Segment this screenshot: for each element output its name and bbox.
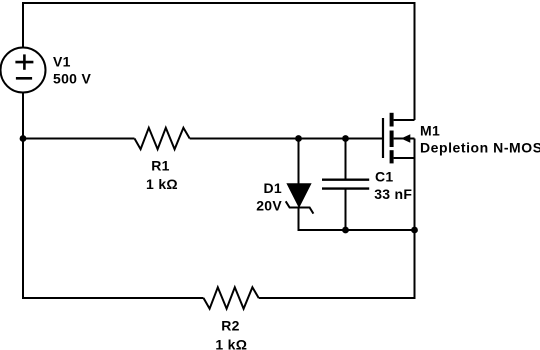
voltage source V1: [1, 48, 46, 93]
resistor R2: [204, 287, 259, 308]
wire right vertical upper (drain to top): [414, 2, 416, 120]
svg-text:1 kΩ: 1 kΩ: [146, 176, 178, 192]
svg-text:20V: 20V: [256, 198, 282, 214]
wire C1 branch upper: [345, 139, 347, 180]
junction node right rail bottom of C1 wire: [411, 227, 418, 234]
svg-text:D1: D1: [264, 180, 283, 196]
drain lead: [394, 119, 415, 121]
svg-text:500 V: 500 V: [53, 71, 91, 87]
wire middle right segment: [190, 138, 383, 140]
wire C1 branch lower: [345, 189, 347, 231]
channel middle bar (body): [390, 131, 394, 148]
channel bottom bar (source): [390, 150, 394, 163]
svg-text:33 nF: 33 nF: [374, 186, 412, 202]
svg-text:C1: C1: [375, 169, 394, 185]
svg-text:R2: R2: [221, 317, 240, 333]
svg-text:Depletion N-MOS: Depletion N-MOS: [420, 139, 540, 155]
svg-text:1 kΩ: 1 kΩ: [215, 336, 247, 350]
channel top bar (drain): [390, 113, 394, 127]
resistor R1: [135, 128, 190, 149]
svg-text:R1: R1: [151, 158, 170, 174]
wire left vertical lower: [22, 93, 24, 300]
wire bottom right segment: [259, 297, 416, 299]
wire bottom left segment: [22, 297, 204, 299]
gate line: [382, 118, 384, 158]
wire D1 branch upper: [298, 139, 300, 185]
junction node D1 top: [295, 135, 302, 142]
MOSFET M1 depletion N-MOS: [383, 113, 415, 164]
wire left vertical upper: [22, 2, 24, 48]
junction node at left rail / middle wire: [20, 135, 27, 142]
svg-text:M1: M1: [420, 122, 440, 138]
junction node C1 top: [342, 135, 349, 142]
wire top rail: [23, 2, 415, 4]
junction node C1 bottom: [342, 227, 349, 234]
source lead: [394, 157, 415, 159]
wire bottom of D1/C1 to right rail: [298, 229, 415, 231]
capacitor C1: [322, 180, 369, 189]
body lead with arrow: [394, 138, 415, 140]
zener diode D1: [286, 184, 314, 214]
wire D1 branch lower: [298, 207, 300, 231]
wire middle left segment: [23, 138, 135, 140]
svg-text:V1: V1: [53, 53, 71, 69]
wire right vertical lower (body/source to bottom): [414, 139, 416, 300]
